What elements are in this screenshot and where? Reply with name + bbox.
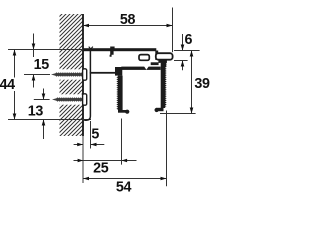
right leg serrations <box>165 62 167 107</box>
dimension 15: stub below top line <box>33 50 35 58</box>
dimension label 5 <box>91 126 99 142</box>
dimension line 54 <box>83 178 166 180</box>
dimension 13: lower arrow stem <box>43 120 45 140</box>
wall face line <box>82 14 84 136</box>
dimension line 58 (wall face to tongue end) <box>83 25 172 27</box>
web from wall plate to left leg <box>90 72 115 74</box>
dimension line 39 (profile top to leg bottom) <box>191 51 193 114</box>
wall plate outer edge with J-bend bottom <box>84 50 90 121</box>
joint notch on top bar <box>89 47 93 49</box>
dimension 5: left arrow stem <box>74 144 84 146</box>
svg-text:39: 39 <box>194 76 210 92</box>
white clearance around screw 2 <box>50 94 84 104</box>
right leg foot <box>156 108 163 111</box>
svg-text:25: 25 <box>93 160 109 176</box>
dimension line 44 lower segment <box>14 91 16 120</box>
dimension label 54 <box>116 180 132 196</box>
left leg head block <box>115 67 122 76</box>
dimension 15: upper arrow stem <box>33 34 35 50</box>
left leg toe <box>125 110 129 114</box>
dimension label 13 <box>28 103 44 119</box>
dimension 25 right arrowhead <box>122 159 128 162</box>
dimension label 6 <box>184 32 192 48</box>
extension line: top of profile (left, for 44/15) <box>8 49 83 51</box>
dimension 5: right arrow stem <box>91 144 105 146</box>
white clearance around screw 1 <box>50 69 84 79</box>
dimension label 15 <box>34 57 50 73</box>
screw 2 threaded shank <box>52 97 83 101</box>
dimension label 25 <box>93 160 109 176</box>
dimension label 58 <box>120 12 136 28</box>
tongue (rounded clip lip) <box>156 53 173 60</box>
extension line: right end of tongue (for 58) <box>172 8 174 53</box>
profile top bar <box>83 48 156 51</box>
right leg toe <box>155 108 159 112</box>
extension line: screw 1 axis <box>24 74 50 76</box>
extension line: wall face extended down (for 5/25/54) <box>82 136 84 183</box>
screw 1 head <box>83 69 87 80</box>
extension line: bottom of legs (for 39) <box>160 113 196 115</box>
channel top bar <box>121 67 160 70</box>
extension line: right edge of left leg (for 25) <box>121 119 123 165</box>
dimension line 44 upper segment <box>14 50 16 78</box>
dimension 6: upper arrow stem <box>182 34 184 51</box>
extension line: right edge of right leg (for 54) <box>166 111 168 187</box>
dimension 13: upper arrow stem <box>43 89 45 100</box>
extension line: screw 2 axis <box>34 99 50 101</box>
retaining pin through top bar <box>110 47 115 57</box>
extension line: bottom of wall plate (for 44/13) <box>8 119 91 121</box>
screw 1 threaded shank <box>51 72 83 76</box>
dimension 25 left arrowhead <box>78 159 84 162</box>
right leg neck <box>161 61 166 67</box>
dimension label 39 <box>194 76 210 92</box>
wall (hatched masonry section) <box>60 14 84 136</box>
right leg body <box>161 63 166 108</box>
svg-text:54: 54 <box>116 180 132 196</box>
extension line: tongue underside (for 6) <box>174 60 188 62</box>
left leg body <box>118 76 123 111</box>
svg-text:44: 44 <box>0 77 15 93</box>
svg-text:58: 58 <box>120 12 136 28</box>
svg-text:5: 5 <box>91 126 99 142</box>
dimension line 25 (outside arrows) <box>74 160 137 162</box>
dimension 15: lower arrow stem <box>33 75 35 88</box>
under-tongue stem <box>158 60 167 63</box>
svg-text:13: 13 <box>28 103 44 119</box>
channel top notch <box>144 66 149 70</box>
extension line: outer face of wall plate (for 5) <box>90 121 92 149</box>
svg-text:6: 6 <box>184 32 192 48</box>
dimension 6: lower arrow stem <box>182 61 184 71</box>
extension line: profile top right (for 6/39) <box>174 50 200 52</box>
left leg foot <box>118 110 126 113</box>
snap slot box <box>139 55 149 61</box>
left leg serrations <box>116 76 118 110</box>
dimension label 44 <box>0 77 15 93</box>
svg-text:15: 15 <box>34 57 50 73</box>
tongue joint block <box>155 51 158 61</box>
screw 2 head <box>83 94 87 105</box>
under-tongue left arm <box>151 62 159 65</box>
